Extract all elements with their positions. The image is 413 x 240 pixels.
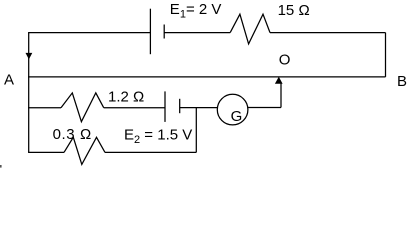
battery E2 short plate — [179, 99, 181, 113]
wire E2 branch vertical junction — [195, 108, 197, 153]
wire E1 to 15 ohm resistor — [164, 32, 230, 34]
svg-text:E1= 2 V: E1= 2 V — [170, 1, 222, 21]
wire bottom right — [105, 151, 196, 153]
galvanometer G circle — [217, 94, 248, 125]
wire left vertical — [28, 33, 30, 153]
wire galvanometer to jockey — [248, 107, 281, 109]
wire 1.2 ohm to E2 — [104, 107, 165, 109]
current arrow down on left vertical — [26, 53, 33, 60]
svg-text:A: A — [4, 71, 14, 88]
stray speck bottom-left — [0, 165, 2, 168]
svg-text:O: O — [279, 52, 291, 69]
battery E1 long plate — [149, 9, 151, 55]
wire A-B potentiometer wire — [28, 76, 385, 78]
svg-text:B: B — [397, 73, 407, 90]
resistor 1.2 ohm zigzag — [61, 93, 104, 122]
wire right vertical down to B — [385, 33, 387, 77]
wire E2 to galvanometer — [180, 107, 218, 109]
svg-text:15 Ω: 15 Ω — [278, 2, 310, 19]
jockey arrow up at O — [275, 77, 283, 84]
wire top-right horizontal — [270, 32, 386, 34]
resistor 0.3 ohm zigzag — [64, 137, 105, 164]
wire bottom left — [28, 151, 64, 153]
svg-text:G: G — [231, 108, 243, 125]
wire jockey vertical — [280, 84, 282, 108]
wire top-left horizontal — [28, 32, 150, 34]
svg-text:1.2 Ω: 1.2 Ω — [108, 89, 144, 106]
battery E2 long plate — [164, 91, 166, 122]
wire middle branch left — [28, 107, 61, 109]
resistor 15 ohm zigzag — [230, 14, 270, 44]
battery E1 short plate — [163, 25, 165, 39]
svg-text:E2 = 1.5 V: E2 = 1.5 V — [124, 126, 192, 146]
svg-text:0.3 Ω: 0.3 Ω — [53, 126, 92, 143]
